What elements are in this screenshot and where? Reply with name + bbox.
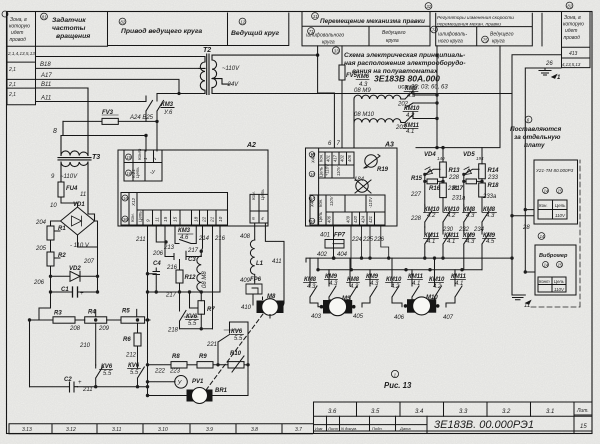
svg-text:74: 74 [432,28,437,33]
svg-text:4.2: 4.2 [406,113,415,119]
svg-text:211: 211 [82,387,93,393]
svg-text:М10: М10 [426,295,438,301]
svg-text:+: + [80,291,84,297]
node circled 81 above frame right [566,2,573,9]
contact KV6 right [138,365,145,387]
svg-text:КМ8: КМ8 [347,277,360,283]
svg-text:213: 213 [163,245,175,251]
transformer T2 [199,54,512,95]
svg-text:402: 402 [317,252,328,258]
svg-text:КV6: КV6 [128,363,140,369]
svg-text:А17: А17 [40,73,52,79]
svg-text:круга: круга [386,38,399,44]
svg-text:8: 8 [53,128,57,135]
svg-text:КМ8: КМ8 [405,86,418,92]
bottom wire 211 [30,386,148,388]
svg-text:233: 233 [487,175,499,181]
svg-text:15: 15 [127,155,132,160]
svg-text:221: 221 [206,342,217,348]
svg-text:ная расположения электрооборуд: ная расположения электрооборудо- [344,59,466,67]
svg-text:R7: R7 [207,307,215,313]
left rail jog [30,292,51,387]
R2 [47,240,60,292]
svg-text:227: 227 [410,192,422,198]
wire A17 [36,79,200,93]
svg-text:КV6: КV6 [186,314,198,320]
svg-text:КМ6: КМ6 [357,74,370,80]
svg-text:2: 2 [152,157,157,161]
svg-text:4.3: 4.3 [466,239,475,245]
node circled 71 [308,28,315,35]
svg-text:А3: А3 [384,142,394,149]
svg-text:3.4: 3.4 [415,409,424,415]
svg-text:вращения: вращения [56,33,90,40]
contacts row2 [425,227,432,258]
cell 21 rail [212,236,214,329]
wire A11 [36,96,147,102]
svg-text:401: 401 [320,233,330,239]
svg-text:3.5: 3.5 [371,409,380,415]
capacitor C4 [148,268,160,292]
svg-text:424: 424 [361,215,366,223]
svg-text:4.1: 4.1 [447,239,455,245]
svg-text:КV6: КV6 [101,364,113,370]
svg-text:FP6: FP6 [250,277,262,283]
junction dots analog section [28,318,31,321]
left zone column box [7,12,36,105]
svg-text:14: 14 [540,234,545,239]
svg-text:круга: круга [322,40,335,46]
svg-text:421: 421 [368,216,373,223]
svg-text:16: 16 [310,219,315,224]
node circled 74 [431,26,438,33]
Рис. 13 [391,370,398,377]
connector X21 cells 1 2 [124,151,162,181]
ground top right [539,68,557,78]
svg-text:КМ9: КМ9 [325,274,338,280]
contact KM8 to rail [405,89,437,99]
wire from header into FV5 [316,46,345,148]
wire from M8 bottom [230,297,271,396]
svg-text:R18: R18 [488,183,500,189]
contactor KM3 contacts [146,94,174,122]
svg-text:413: 413 [569,51,578,57]
rail B [525,68,561,272]
svg-text:206: 206 [33,280,45,286]
svg-text:406: 406 [327,215,332,223]
vertical from R4 junction [95,323,97,365]
svg-text:401: 401 [326,155,331,162]
svg-text:33: 33 [334,49,339,54]
bottom zone strip [9,424,313,434]
wire 211 rail [148,225,221,396]
wire 11/19 joint [156,225,165,248]
header cell Перемещение механизма правки [302,12,430,46]
bridge rectifier VD1 [61,207,95,235]
svg-text:26: 26 [545,61,553,67]
svg-text:32: 32 [426,4,431,9]
svg-text:VD1: VD1 [73,202,85,208]
svg-text:КМ10: КМ10 [386,277,402,283]
svg-text:~24V: ~24V [224,82,239,88]
svg-text:216: 216 [166,265,178,271]
svg-text:08 М10: 08 М10 [354,112,375,118]
motor M10 [404,297,440,315]
svg-text:3.2: 3.2 [502,409,511,415]
BR1 tacho [148,395,192,397]
svg-text:3.11: 3.11 [112,427,122,433]
svg-text:Вибромер: Вибромер [539,252,568,259]
svg-text:FU4: FU4 [66,186,78,192]
svg-text:С4: С4 [153,261,161,267]
svg-text:15: 15 [558,263,563,268]
svg-text:Изм: Изм [315,426,323,431]
motor M9 [320,298,356,316]
svg-text:75: 75 [483,38,488,43]
header cell Задатчик частоты вращения [36,12,108,47]
svg-text:228: 228 [448,175,460,181]
svg-text:11: 11 [80,192,86,198]
svg-text:19: 19 [163,216,168,222]
svg-text:4: 4 [261,216,264,221]
R8 R9 R10 row [148,297,271,404]
svg-text:В11: В11 [41,82,51,88]
header cell Регуляторы изменения скорости [436,13,533,46]
lower left analog section [30,292,151,392]
svg-text:Ведущего: Ведущего [490,32,514,38]
svg-text:Х40: Х40 [310,199,315,208]
svg-text:409: 409 [346,215,351,223]
block A3 [306,148,398,226]
svg-text:3.1: 3.1 [546,409,554,415]
svg-text:Кон.: Кон. [319,154,324,162]
svg-text:3.7: 3.7 [295,427,302,433]
svg-text:211: 211 [135,237,146,243]
svg-text:4.3: 4.3 [307,284,316,290]
svg-text:Цепь: Цепь [319,167,324,177]
svg-text:М9: М9 [342,296,351,302]
svg-text:М8: М8 [267,294,276,300]
svg-text:У21-ТМ 80.000Р3: У21-ТМ 80.000Р3 [536,168,574,173]
svg-text:4.3: 4.3 [329,281,338,287]
R13 vertical [442,148,444,162]
motor M8 [257,299,284,316]
A3 potentiometers [365,155,377,167]
svg-text:2,1: 2,1 [8,82,16,88]
svg-text:184: 184 [354,177,365,183]
svg-text:У.6: У.6 [163,110,173,116]
svg-text:410: 410 [241,305,252,311]
svg-text:R17: R17 [452,186,464,192]
resistor R6 [137,323,139,333]
svg-text:12: 12 [240,20,245,25]
diode VD5 diagonal [464,169,479,174]
svg-text:Ведущего: Ведущего [382,30,406,36]
svg-text:21: 21 [210,216,215,223]
svg-text:4.5: 4.5 [486,239,495,245]
svg-text:Цепь: Цепь [318,212,323,222]
svg-text:5: 5 [252,216,255,221]
VD4 resistor network [416,46,500,270]
rail x437 [436,46,438,148]
svg-text:204: 204 [35,220,47,226]
svg-text:R5: R5 [122,309,130,315]
node circled 75 [482,36,489,43]
svg-text:225: 225 [362,237,374,243]
svg-text:110V: 110V [555,213,566,218]
node circled 82 [119,18,126,25]
R14 vertical [481,148,483,164]
svg-text:Задатчик: Задатчик [52,16,86,24]
svg-text:228: 228 [410,216,422,222]
svg-text:4,13,5,13: 4,13,5,13 [562,62,581,67]
svg-text:14: 14 [544,263,549,268]
transformer T3 [58,88,95,221]
svg-text:4.3: 4.3 [466,213,475,219]
svg-text:11: 11 [155,217,160,222]
svg-text:222: 222 [154,369,166,375]
ground bottom [512,295,525,300]
svg-text:R15: R15 [411,176,423,182]
svg-text:R1: R1 [58,226,66,232]
mechanical link dashed [206,314,263,390]
svg-text:16: 16 [123,196,128,201]
svg-text:FV3: FV3 [102,110,114,116]
wires into A2 top [146,121,157,151]
svg-text:плату: плату [524,142,545,149]
svg-text:10: 10 [218,216,223,222]
svg-text:Кон.: Кон. [130,213,135,222]
svg-text:R14: R14 [488,168,500,174]
svg-text:4.3: 4.3 [407,93,416,99]
title block frame [314,402,593,434]
svg-text:194: 194 [476,156,484,161]
svg-text:Кон.: Кон. [251,191,256,200]
svg-text:Дата: Дата [399,426,411,431]
R15 horizontal [425,174,427,205]
svg-text:Х12: Х12 [131,197,136,207]
svg-text:R3: R3 [54,311,62,317]
svg-text:16: 16 [310,172,315,177]
svg-text:КМ9: КМ9 [366,274,379,280]
svg-text:В18: В18 [40,62,51,68]
svg-text:210: 210 [79,343,91,349]
svg-text:+: + [78,380,82,386]
svg-text:идет: идет [11,30,23,36]
svg-text:идет: идет [565,28,577,34]
inductor 08 M8 [197,251,201,292]
svg-text:5.5: 5.5 [188,321,197,327]
svg-text:217: 217 [165,293,177,299]
capacitor C3 [165,248,201,260]
svg-text:R19: R19 [377,167,389,173]
svg-text:перемещения механ. правки: перемещения механ. правки [437,23,501,28]
svg-text:22: 22 [202,216,207,223]
svg-text:КМ3: КМ3 [161,102,174,108]
svg-text:Цепь: Цепь [260,189,265,200]
svg-text:КМ3: КМ3 [178,228,191,234]
unit U21-TM box [534,160,578,224]
trimmer arrow R10 [232,356,244,372]
svg-text:которую: которую [563,22,584,28]
contacts row1 [425,205,432,227]
svg-text:15: 15 [173,216,178,222]
arrows on R4 R5 (trimmers) [96,309,137,316]
fraction label underlines [100,92,497,370]
inductor coil 08 M9 [351,89,437,148]
A3 bottom connector [310,195,385,225]
svg-text:Зона, в: Зона, в [564,15,581,21]
svg-text:11: 11 [524,303,530,309]
svg-text:R9: R9 [199,354,207,360]
wire 8 [61,121,146,135]
svg-text:провод: провод [564,35,581,41]
svg-text:VD4: VD4 [424,152,436,158]
wire B18 [36,67,200,69]
diode VD2 [51,271,98,281]
inductor L1 [250,240,254,282]
svg-text:3Е183В. 00.000РЭ1: 3Е183В. 00.000РЭ1 [434,419,534,431]
diode VD4 diagonal [425,169,440,174]
motor contact row [310,258,462,307]
svg-text:А2: А2 [246,142,256,149]
svg-text:4.6: 4.6 [180,235,189,241]
svg-text:КМ10: КМ10 [429,277,445,283]
svg-text:VD5: VD5 [463,152,475,158]
svg-text:403: 403 [311,314,322,320]
svg-text:31: 31 [313,14,318,19]
contact KM3 4.6 [175,225,196,244]
supplied separately note [510,116,561,149]
svg-text:5.5: 5.5 [234,336,243,342]
svg-text:4.2: 4.2 [433,284,442,290]
svg-text:5.5: 5.5 [103,371,112,377]
resistor R7 potentiometer [200,292,202,301]
right zone column [562,12,591,67]
svg-text:R16: R16 [429,186,441,192]
inductor coil 08 M10 [354,119,405,123]
svg-text:R8: R8 [172,354,180,360]
svg-text:КV6: КV6 [231,329,243,335]
svg-text:Цепь: Цепь [554,279,564,284]
svg-text:А24 В25: А24 В25 [129,115,154,121]
svg-text:411: 411 [272,259,282,265]
svg-text:N докум.: N докум. [341,426,357,431]
R1 [47,221,61,240]
junction dots [155,120,158,123]
svg-text:КМ11: КМ11 [451,274,467,280]
junction dots VD4 network [441,146,444,149]
fuse FV5 [339,65,345,80]
heater FP6 [246,282,262,294]
svg-text:С2: С2 [64,377,72,383]
svg-text:шлифоваль-: шлифоваль- [438,32,467,38]
svg-text:218: 218 [167,328,179,334]
svg-text:5.5: 5.5 [130,370,139,376]
svg-text:PV1: PV1 [192,379,204,385]
svg-text:214: 214 [198,236,210,242]
svg-text:2,1,4,13,5,13: 2,1,4,13,5,13 [7,51,35,56]
svg-text:10: 10 [50,203,57,209]
top wire [416,46,500,148]
svg-text:216: 216 [214,236,226,242]
svg-text:206: 206 [152,251,164,257]
svg-text:15: 15 [558,189,563,194]
svg-text:4.1: 4.1 [406,129,414,135]
node circled 32 above frame [425,3,432,10]
wire 208 row with R3 R4 R5 [30,319,54,321]
svg-text:217: 217 [187,248,199,254]
svg-text:Поставляются: Поставляются [510,126,561,133]
svg-text:4.2: 4.2 [391,284,400,290]
svg-text:404: 404 [337,252,348,258]
connector X21 cells 5 4 [250,194,268,223]
svg-text:3.6: 3.6 [328,409,337,415]
svg-text:408: 408 [240,234,251,240]
block A2 [118,150,268,226]
junction dots A2 underside [164,240,167,243]
svg-text:3.3: 3.3 [459,409,468,415]
connector X12 [121,193,228,226]
R17 horizontal [464,174,466,205]
svg-text:81: 81 [42,15,47,20]
dashed boundary bottom [531,160,580,307]
svg-text:R2: R2 [58,253,66,259]
svg-text:Конт: Конт [137,148,142,160]
svg-text:226: 226 [373,237,385,243]
svg-text:частоты: частоты [52,25,86,32]
svg-text:81: 81 [567,4,572,9]
svg-text:08 М8: 08 М8 [202,271,208,288]
svg-text:КМ11: КМ11 [408,274,424,280]
svg-text:R12: R12 [185,275,197,281]
svg-text:28: 28 [522,225,530,231]
svg-text:-110V: -110V [368,196,373,208]
svg-text:ного круга: ного круга [438,39,463,45]
contact KV6 5.5 vertical [180,292,187,329]
svg-text:82: 82 [120,20,125,25]
svg-text:КМ8: КМ8 [304,277,317,283]
vibrometer box [535,245,576,295]
header cell Ведущий круг [228,13,289,46]
svg-text:4.3: 4.3 [486,213,495,219]
fuse FU4 [58,182,78,207]
schematic title text [332,47,465,91]
bridge output right rail [78,221,98,292]
svg-text:Ведущий круг: Ведущий круг [231,29,280,37]
svg-text:3.8: 3.8 [251,427,258,433]
R16 vertical [440,183,447,198]
svg-text:Кон.: Кон. [318,199,323,207]
svg-text:407: 407 [443,315,454,321]
junction dots bus 402/404 [332,256,335,259]
svg-text:207: 207 [83,259,95,265]
svg-text:36: 36 [123,217,128,222]
wires from X21 5 4 down [246,223,284,305]
svg-text:14: 14 [544,189,549,194]
svg-text:4.1: 4.1 [427,239,435,245]
svg-text:110V: 110V [329,195,334,206]
svg-text:шлифовального: шлифовального [306,33,344,39]
svg-text:L1: L1 [256,261,264,267]
svg-text:406: 406 [347,154,352,162]
heater FP7 [333,225,335,257]
svg-text:К.21: К.21 [131,169,136,178]
svg-text:Т2: Т2 [203,47,211,54]
svg-text:402: 402 [340,154,345,162]
svg-text:R6: R6 [123,337,131,343]
svg-text:233а: 233а [482,194,497,200]
